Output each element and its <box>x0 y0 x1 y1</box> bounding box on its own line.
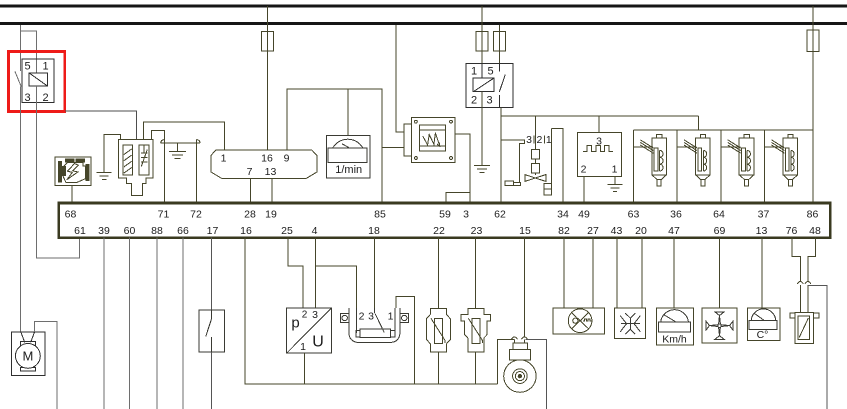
wire ECU 69 to fan box <box>719 238 721 308</box>
svg-text:88: 88 <box>151 225 163 237</box>
svg-text:2: 2 <box>359 310 365 322</box>
wire branch to relay pin 1 <box>21 31 37 73</box>
wire ECU 17 to switch <box>211 238 213 310</box>
svg-text:36: 36 <box>670 209 682 221</box>
svg-text:68: 68 <box>65 209 77 221</box>
svg-text:7: 7 <box>247 166 253 178</box>
engine icon box <box>55 157 91 185</box>
svg-text:23: 23 <box>471 225 483 237</box>
wires ECU 43 20 to AC box <box>616 238 618 309</box>
wire ECU 60 down <box>128 238 130 409</box>
wire engine to ECU pin 68 <box>71 185 73 203</box>
svg-text:2: 2 <box>42 92 48 104</box>
wire sender pin1 to ECU pin 34 <box>552 129 563 203</box>
sender pin 1 path <box>551 129 553 184</box>
svg-text:27: 27 <box>587 225 599 237</box>
relay J17 box <box>22 59 54 103</box>
sender pin dividers <box>533 136 535 144</box>
wire sensor to ECU pin 71 <box>152 131 165 203</box>
wire connector pin 13 to ECU 19 <box>271 179 273 203</box>
ground below relay coil <box>474 92 490 173</box>
ECU top row pin numbers <box>65 209 819 221</box>
svg-text:49: 49 <box>578 209 590 221</box>
wire bus2 through fuse to relay pin 5 <box>499 25 501 63</box>
svg-text:86: 86 <box>807 209 819 221</box>
fuse top right <box>807 30 819 51</box>
sender box G <box>578 133 622 177</box>
svg-text:3: 3 <box>368 310 374 322</box>
wire distribution to sender pin 3 <box>598 116 600 132</box>
svg-text:25: 25 <box>281 225 293 237</box>
svg-text:M: M <box>22 349 33 364</box>
svg-text:2: 2 <box>581 163 587 175</box>
pressure sensor box <box>287 308 332 353</box>
injector N33 <box>765 130 798 203</box>
svg-text:13: 13 <box>265 166 277 178</box>
red highlight frame <box>9 52 65 112</box>
wire sensor to connector pin 1 <box>144 122 225 150</box>
svg-text:76: 76 <box>786 225 798 237</box>
NTC sensor 2 <box>461 309 491 353</box>
relay J17 coil <box>29 73 48 86</box>
svg-text:3: 3 <box>24 92 30 104</box>
fuse left <box>476 32 488 52</box>
ground riser to knock sensor <box>497 340 514 385</box>
speedometer box <box>656 308 693 345</box>
crank sensor G28 body <box>119 140 154 196</box>
knock sensor body <box>504 340 536 393</box>
wire pin85 line to ignition module <box>382 147 404 149</box>
sender ground <box>607 177 622 192</box>
wire ECU 22 to NTC1 <box>438 238 440 308</box>
knock branch wire to bottom <box>525 340 546 409</box>
switch box <box>199 310 225 352</box>
svg-text:1: 1 <box>221 152 227 164</box>
wire to tach <box>347 89 349 135</box>
ground between pins 71/72 <box>161 140 200 159</box>
svg-text:61: 61 <box>74 225 86 237</box>
wire bus2 to module <box>396 25 404 132</box>
wire bus1 to connector pin 16 <box>267 6 269 150</box>
relay J17 pin labels <box>24 61 48 105</box>
wire relay pin 3 to fuel pump motor <box>20 87 22 333</box>
svg-text:9: 9 <box>284 152 290 164</box>
square wave symbol <box>583 146 613 152</box>
svg-text:3: 3 <box>463 209 469 221</box>
svg-text:1: 1 <box>612 163 618 175</box>
wire ECU 15 to knock sensor <box>523 238 525 337</box>
svg-text:3: 3 <box>526 134 532 146</box>
wire motor to bottom edge <box>35 322 58 409</box>
wire ECU 18 to pot wiper <box>374 238 376 308</box>
distribution wire to sender / injectors <box>501 115 699 117</box>
svg-text:60: 60 <box>124 225 136 237</box>
svg-text:16: 16 <box>261 152 273 164</box>
svg-text:72: 72 <box>190 209 202 221</box>
svg-text:85: 85 <box>374 209 386 221</box>
svg-text:82: 82 <box>558 225 570 237</box>
temperature gauge box <box>748 308 780 340</box>
svg-text:U: U <box>312 333 324 350</box>
svg-text:1: 1 <box>42 61 48 73</box>
svg-text:1: 1 <box>471 66 477 78</box>
wire connector pin 9 / tach / ECU 85 <box>287 89 382 203</box>
sender resistors <box>534 116 536 149</box>
cable squiggles <box>797 282 803 284</box>
fan box <box>702 308 737 343</box>
wire relay box to crank sensor <box>65 111 137 139</box>
svg-text:17: 17 <box>207 225 219 237</box>
wire branch to throttle pot <box>316 266 357 308</box>
relay J box <box>466 63 513 107</box>
wire distribution drop to injector rail <box>698 116 700 130</box>
svg-text:2: 2 <box>471 94 477 106</box>
connector T16 outline <box>211 150 317 179</box>
crank sensor coil <box>123 145 133 175</box>
wire ECU 47 to speedo box <box>673 238 675 309</box>
svg-text:69: 69 <box>714 225 726 237</box>
svg-text:3: 3 <box>312 309 318 321</box>
wire ECU 25 to sensor pin 2 <box>288 238 303 308</box>
relay switch contact <box>499 63 501 71</box>
svg-text:3: 3 <box>486 94 492 106</box>
svg-text:43: 43 <box>611 225 623 237</box>
relay J17 switch contact <box>15 71 21 86</box>
wire bus1 fuse to ECU pin 86 <box>812 6 814 203</box>
svg-text:71: 71 <box>158 209 170 221</box>
wire ECU pin 72 <box>195 140 197 203</box>
wire switch to bottom edge <box>211 352 213 409</box>
wire ECU 13 to temp gauge box <box>761 238 763 308</box>
wire connector pin 7 to ECU 28 <box>250 179 252 203</box>
svg-text:20: 20 <box>635 225 647 237</box>
ECU bottom row pin numbers <box>74 225 821 237</box>
wire ECU 23 to NTC2 <box>474 238 476 308</box>
svg-text:4: 4 <box>312 225 318 237</box>
ground bus extension <box>414 383 497 385</box>
svg-text:39: 39 <box>98 225 110 237</box>
injector supply rail <box>634 129 814 131</box>
fuse right <box>494 32 506 52</box>
pot internals <box>356 308 395 338</box>
svg-text:22: 22 <box>433 225 445 237</box>
wire relay pin 3 to ECU pin 62 <box>500 107 502 203</box>
svg-text:34: 34 <box>557 209 569 221</box>
knock sensor cable squiggles <box>511 337 517 339</box>
wire ECU 39 down <box>103 238 105 409</box>
svg-text:48: 48 <box>809 225 821 237</box>
svg-text:2: 2 <box>302 309 308 320</box>
wire bus1 through fuse to relay pin 1 <box>481 6 483 63</box>
wires ECU 76 48 <box>792 238 800 282</box>
wire ECU 4 to sensor pin 3 <box>315 238 317 308</box>
wires ECU 82 27 to lamp box <box>563 238 565 309</box>
bus bar 30 (top supply rail) <box>0 4 847 7</box>
svg-text:28: 28 <box>244 209 256 221</box>
svg-text:5: 5 <box>24 61 30 73</box>
svg-text:13: 13 <box>756 225 768 237</box>
svg-text:59: 59 <box>439 209 451 221</box>
pump impeller <box>525 175 546 182</box>
pot body <box>349 308 400 343</box>
svg-text:37: 37 <box>758 209 770 221</box>
wire sender pin2 to ECU 49 <box>583 177 585 203</box>
fuse above connector <box>262 32 274 52</box>
svg-text:62: 62 <box>494 209 506 221</box>
tachometer box <box>327 135 371 178</box>
wire to fuel gauge sender pin 3 <box>501 140 525 182</box>
branch wire right to bottom <box>808 286 827 409</box>
ECU connector bar <box>59 203 831 238</box>
wire sensor pin1 to ground bus <box>304 353 306 384</box>
svg-text:1/min: 1/min <box>335 164 362 176</box>
wire bus to relay pin 5 <box>20 25 22 71</box>
svg-text:64: 64 <box>713 209 725 221</box>
svg-text:C°: C° <box>757 329 769 341</box>
wire relay pin 2 to ECU pin 61 <box>37 86 80 258</box>
svg-text:p: p <box>291 315 299 332</box>
fuel gauge float <box>505 181 514 186</box>
svg-text:1: 1 <box>388 310 394 322</box>
heater element <box>790 313 819 344</box>
svg-text:1: 1 <box>300 341 306 353</box>
svg-text:63: 63 <box>628 209 640 221</box>
ground (sensor shield) <box>97 135 121 180</box>
wire ECU 88 down <box>156 238 158 409</box>
injector N32 <box>721 130 754 203</box>
svg-text:18: 18 <box>368 225 380 237</box>
injector N31 <box>677 130 710 203</box>
svg-text:Km/h: Km/h <box>662 334 687 346</box>
svg-text:1: 1 <box>546 134 552 146</box>
relay coil <box>473 78 494 92</box>
svg-text:47: 47 <box>668 225 680 237</box>
svg-text:15: 15 <box>519 225 531 237</box>
wire ECU 16 loop to pot pin 1 <box>245 238 414 385</box>
svg-text:5: 5 <box>487 66 493 78</box>
svg-text:2: 2 <box>536 134 542 146</box>
connector pin labels <box>221 152 290 178</box>
NTC sensor 1 <box>426 309 450 353</box>
ignition module N box <box>404 117 455 162</box>
svg-text:16: 16 <box>240 225 252 237</box>
injector N30 <box>634 130 667 203</box>
wire module to ECU pin 3 and 59 <box>455 134 470 203</box>
exhaust warning lamp box <box>553 308 604 334</box>
wire ECU 66 down <box>182 238 184 409</box>
svg-text:19: 19 <box>265 209 277 221</box>
bus bar 15 (second supply rail) <box>0 22 847 25</box>
crank sensor shield element <box>139 145 149 175</box>
AC snowflake box <box>615 308 646 338</box>
fuel pump motor <box>12 332 45 376</box>
svg-text:66: 66 <box>177 225 189 237</box>
